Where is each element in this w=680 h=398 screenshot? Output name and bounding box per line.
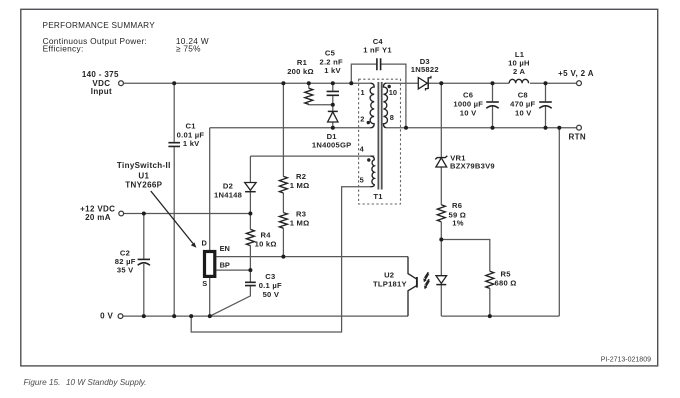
svg-text:50 V: 50 V xyxy=(263,290,280,299)
svg-text:8: 8 xyxy=(390,113,394,122)
svg-text:BZX79B3V9: BZX79B3V9 xyxy=(450,162,495,171)
svg-text:R2: R2 xyxy=(296,172,306,181)
svg-text:10 V: 10 V xyxy=(460,109,477,118)
svg-text:C3: C3 xyxy=(265,272,275,281)
svg-text:TNY266P: TNY266P xyxy=(125,180,162,189)
svg-text:≥ 75%: ≥ 75% xyxy=(176,44,201,54)
svg-text:Efficiency:: Efficiency: xyxy=(43,44,84,54)
svg-text:R5: R5 xyxy=(501,269,512,278)
svg-text:BP: BP xyxy=(220,261,230,270)
svg-text:1N4005GP: 1N4005GP xyxy=(312,140,352,149)
svg-text:10 V: 10 V xyxy=(515,109,532,118)
svg-text:U1: U1 xyxy=(138,171,149,180)
svg-text:5: 5 xyxy=(360,175,364,184)
svg-text:0.01 µF: 0.01 µF xyxy=(177,130,205,139)
svg-text:1000 µF: 1000 µF xyxy=(453,100,483,109)
svg-text:2 A: 2 A xyxy=(513,67,526,76)
svg-text:1%: 1% xyxy=(452,219,463,228)
svg-text:1 nF Y1: 1 nF Y1 xyxy=(363,45,392,54)
svg-text:+12 VDC: +12 VDC xyxy=(80,204,115,213)
svg-text:1 kV: 1 kV xyxy=(183,139,200,148)
svg-text:C8: C8 xyxy=(518,91,528,100)
svg-text:PI-2713-021809: PI-2713-021809 xyxy=(601,356,651,363)
svg-text:200 kΩ: 200 kΩ xyxy=(287,67,314,76)
svg-text:C6: C6 xyxy=(463,91,473,100)
svg-text:R1: R1 xyxy=(297,58,308,67)
svg-text:D2: D2 xyxy=(223,182,233,191)
svg-text:EN: EN xyxy=(220,244,230,253)
svg-text:+5 V, 2 A: +5 V, 2 A xyxy=(558,69,594,78)
svg-text:10 kΩ: 10 kΩ xyxy=(255,240,277,249)
svg-text:20 mA: 20 mA xyxy=(85,213,111,222)
svg-text:470 µF: 470 µF xyxy=(510,100,535,109)
svg-text:2: 2 xyxy=(360,114,364,123)
svg-text:1 kV: 1 kV xyxy=(324,66,341,75)
svg-text:S: S xyxy=(202,279,207,288)
svg-text:1: 1 xyxy=(361,88,365,97)
svg-text:1 MΩ: 1 MΩ xyxy=(290,181,310,190)
svg-text:PERFORMANCE SUMMARY: PERFORMANCE SUMMARY xyxy=(43,21,156,30)
svg-text:C5: C5 xyxy=(325,48,336,57)
svg-text:140 - 375: 140 - 375 xyxy=(82,70,119,79)
svg-text:680 Ω: 680 Ω xyxy=(495,278,517,287)
svg-text:35 V: 35 V xyxy=(117,266,134,275)
svg-text:Input: Input xyxy=(91,87,112,96)
svg-text:R6: R6 xyxy=(452,201,462,210)
svg-text:1 MΩ: 1 MΩ xyxy=(290,219,310,228)
svg-text:D: D xyxy=(202,239,208,248)
svg-text:Figure 15.: Figure 15. xyxy=(24,378,61,387)
svg-text:T1: T1 xyxy=(373,192,383,201)
svg-text:10 W Standby Supply.: 10 W Standby Supply. xyxy=(66,378,146,387)
svg-text:10: 10 xyxy=(389,88,397,97)
svg-text:TinySwitch-II: TinySwitch-II xyxy=(117,161,171,170)
svg-text:0.1 µF: 0.1 µF xyxy=(259,281,282,290)
svg-text:C2: C2 xyxy=(120,248,130,257)
svg-text:R3: R3 xyxy=(296,209,306,218)
svg-text:U2: U2 xyxy=(384,270,394,279)
svg-text:0 V: 0 V xyxy=(100,311,113,320)
svg-text:10 µH: 10 µH xyxy=(508,59,530,68)
svg-text:C1: C1 xyxy=(185,121,196,130)
svg-text:R4: R4 xyxy=(261,231,272,240)
svg-text:RTN: RTN xyxy=(569,133,587,142)
svg-text:TLP181Y: TLP181Y xyxy=(373,279,407,288)
svg-text:1N4148: 1N4148 xyxy=(214,191,242,200)
svg-text:1N5822: 1N5822 xyxy=(411,65,439,74)
